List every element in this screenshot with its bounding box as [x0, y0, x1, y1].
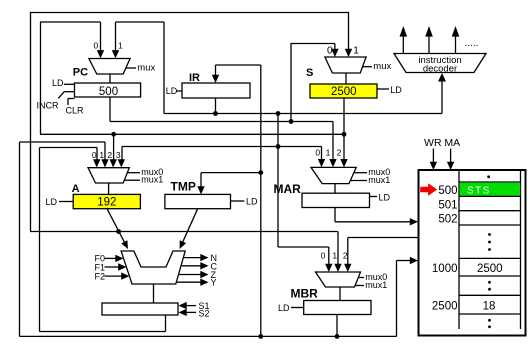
value memory 2500 = 18 [483, 300, 496, 312]
wire MAR-out to memory address port [335, 218, 418, 225]
label MBR mux input 0 [321, 251, 326, 261]
label MBR mux input 2 [343, 251, 348, 261]
wire shifter-out segment y=331 [40, 331, 166, 333]
svg-text:2: 2 [107, 150, 112, 160]
memory box [419, 170, 526, 336]
wire IR-out segment y=22 [116, 21, 165, 23]
label WR [424, 137, 442, 149]
label S mux input 0 [327, 46, 333, 57]
junction MBR-out at busB riser [258, 334, 263, 339]
svg-text:1: 1 [118, 40, 123, 50]
label INCR (PC) [37, 92, 75, 111]
value S 2500 [331, 86, 357, 98]
svg-text:18: 18 [483, 300, 496, 312]
memory ellipsis 2 [488, 281, 491, 291]
label memory address 1000 [432, 263, 458, 275]
wire MBR-out segment y=65 to IR [216, 64, 261, 66]
wire PC-out bus y=121 [110, 121, 333, 123]
value A 192 [97, 197, 116, 209]
wire A mux output stem [108, 183, 110, 194]
wire MBR-out riser busB x=261 [260, 65, 262, 336]
svg-text:.....: ..... [465, 38, 479, 49]
label mux (S) [362, 61, 391, 72]
svg-text:INCR: INCR [37, 101, 59, 111]
label CLR (PC) [66, 99, 85, 116]
register A name [72, 183, 80, 195]
svg-text:A: A [72, 183, 80, 195]
label PC mux input 1 [118, 40, 123, 50]
register PC name [73, 67, 88, 79]
value memory 1000 = 2500 [477, 263, 503, 275]
label memory address 501 [438, 199, 457, 211]
label N output [183, 253, 217, 263]
register IR box [182, 83, 250, 98]
wire ALU output stem [153, 284, 155, 303]
label decoder more-outputs dots [465, 38, 479, 49]
wire MBR-out drop into IR [212, 65, 219, 83]
label A mux input 0 [92, 150, 97, 160]
wire MAR mux output stem [334, 184, 336, 194]
wire IR-out riser to PC mux input 1 [163, 22, 165, 114]
svg-text:S2: S2 [199, 308, 210, 318]
label MAR mux input 1 [326, 147, 331, 157]
wire shifter-out riser x=39 [39, 148, 41, 332]
wire PC-out stem [109, 97, 111, 122]
label mux0 (MBR) [358, 272, 387, 282]
label LD (MAR) [370, 193, 391, 203]
register MBR name [291, 287, 319, 301]
wire IR-out segment y=247 [278, 246, 329, 248]
wire IR-out bus3 y=146 [122, 146, 322, 148]
wire S-out segment y=22 left [40, 21, 101, 23]
register TMP box [165, 194, 231, 208]
svg-text:0: 0 [94, 40, 99, 50]
svg-text:0: 0 [321, 251, 326, 261]
svg-text:2: 2 [343, 251, 348, 261]
shifter box [102, 303, 178, 315]
wire PC-out riser to S mux input 0 [290, 43, 292, 122]
label C output [181, 261, 218, 271]
label MAR mux input 0 [315, 147, 320, 157]
svg-text:2500: 2500 [432, 300, 458, 312]
wire A-out riser to S mux input 1 [345, 12, 352, 57]
svg-text:mux: mux [373, 61, 391, 72]
label MBR mux input 1 [332, 251, 337, 261]
ALU funnel [121, 251, 185, 284]
svg-text:LD: LD [246, 196, 258, 206]
svg-text:TMP: TMP [171, 180, 196, 194]
svg-text:1000: 1000 [432, 263, 458, 275]
wire TMP to ALU diagonal [180, 209, 198, 249]
junction MBR-out stem at bottom bus [335, 334, 340, 339]
memory cell row lines [459, 182, 521, 314]
svg-text:0: 0 [92, 150, 97, 160]
wire memory-read y=237 [348, 237, 418, 239]
mux PC (2-input) [89, 59, 130, 75]
register PC box [75, 83, 141, 97]
svg-text:1: 1 [99, 150, 104, 160]
svg-text:0: 0 [327, 46, 333, 57]
memory current-address red arrow [420, 183, 437, 196]
register S box [310, 84, 377, 98]
register A box [73, 194, 140, 208]
label LD (S) [377, 85, 402, 95]
wire A-out top segment y=12 [30, 12, 349, 14]
memory ellipsis 3 [488, 319, 491, 328]
label mux1 (A) [124, 175, 163, 185]
label Z output [179, 270, 217, 280]
svg-text:LD: LD [379, 193, 391, 203]
label mux0 (MAR) [354, 167, 391, 177]
junction IR-out at bus3 [276, 144, 281, 149]
mux A (4-input) [88, 168, 129, 183]
wire IR-out drop to MAR mux input 0 [318, 147, 325, 168]
svg-text:501: 501 [438, 199, 457, 211]
wire MBR-out riser to memory write port [396, 261, 398, 337]
wire IR-out stem [215, 98, 217, 114]
svg-text:IR: IR [189, 72, 200, 84]
svg-text:decoder: decoder [423, 64, 457, 75]
svg-text:2500: 2500 [477, 263, 503, 275]
svg-text:500: 500 [438, 185, 457, 197]
label PC mux input 0 [94, 40, 99, 50]
svg-text:1: 1 [332, 251, 337, 261]
wire IR-out drop to MBR mux input 0 [325, 247, 332, 272]
label memory address 500 [438, 185, 457, 197]
wire PC-out drop into S mux 0 [331, 44, 338, 58]
register S name [306, 67, 313, 79]
svg-text:MBR: MBR [291, 287, 319, 301]
svg-text:192: 192 [97, 197, 116, 209]
svg-text:S: S [306, 67, 313, 79]
svg-text:PC: PC [73, 67, 88, 79]
svg-text:LD: LD [46, 197, 58, 207]
decoder output arrow 1 [400, 26, 408, 53]
wire PC-out drop to MAR mux input 1 [329, 122, 336, 168]
junction S-out at A mux branch [111, 132, 116, 137]
wire MBR-out drop to A mux input 1 [101, 142, 108, 168]
label A mux input 1 [99, 150, 104, 160]
wire MBR-out segment to TMP [201, 172, 261, 174]
wire A-out left segment x=30 [30, 12, 32, 232]
wire IR-out bus y=113 [164, 113, 442, 115]
label F2 input [95, 271, 130, 281]
wire shifter-out stem [165, 315, 167, 332]
label LD (MBR) [278, 303, 304, 313]
wire A-out riser to MBR mux input 1 [334, 232, 341, 273]
instruction decoder [394, 54, 486, 75]
svg-text:mux1: mux1 [141, 175, 163, 185]
svg-text:0: 0 [315, 147, 320, 157]
label F1 input [95, 262, 127, 272]
value PC 500 [99, 86, 118, 98]
wire S-out riser from S register [340, 98, 347, 167]
label Y output [176, 278, 216, 288]
wire MBR-out left riser x=19 [19, 142, 21, 336]
decoder output arrow 3 [452, 26, 460, 53]
wire S mux output stem [345, 73, 347, 84]
label S1 input [179, 301, 210, 311]
label LD (IR) [166, 86, 182, 96]
register TMP name [171, 180, 196, 194]
mux MAR (3-input) [311, 167, 356, 183]
svg-text:WR: WR [424, 137, 442, 149]
wire MA into memory [447, 149, 454, 171]
memory top ellipsis [487, 175, 490, 178]
wire S-out bus y=134 [40, 133, 344, 135]
svg-text:MA: MA [444, 137, 460, 149]
mux S (2-input) [325, 57, 366, 73]
label mux (PC) [126, 62, 155, 73]
wire MBR-out into memory [397, 257, 419, 264]
memory cell column right edge [520, 170, 522, 329]
svg-text:LD: LD [390, 85, 402, 95]
wire S-out drop to A mux input 2 [110, 134, 117, 167]
label LD (A) [46, 197, 74, 207]
wire WR into memory [430, 149, 437, 171]
junction MBR-out at TMP branch [258, 170, 263, 175]
memory ellipsis 1 [488, 233, 491, 251]
svg-text:1: 1 [353, 46, 359, 57]
wire MBR mux output stem [339, 287, 341, 301]
svg-text:2: 2 [337, 147, 342, 157]
memory address column divider [458, 170, 460, 329]
label LD (TMP) [231, 196, 259, 206]
register MAR name [274, 182, 302, 196]
svg-text:CLR: CLR [66, 106, 85, 116]
svg-text:MAR: MAR [274, 182, 302, 196]
svg-text:STS: STS [467, 185, 491, 196]
wire MBR-out segment y=142 [20, 141, 106, 143]
register MBR box [304, 301, 371, 315]
mux MBR (3-input) [316, 272, 361, 287]
wire S-out drop to PC mux input 0 [97, 22, 104, 58]
wire shifter-out drop to A mux input 0 [93, 148, 100, 168]
wire MAR-out stem [334, 208, 336, 222]
wire IR-out riser x=278 [277, 114, 279, 248]
label memory address 2500 [432, 300, 458, 312]
svg-text:mux: mux [137, 62, 155, 73]
register MAR box [302, 193, 370, 207]
wire A-out bottom segment y=231 [30, 231, 338, 233]
label MA [444, 137, 460, 149]
decoder output arrow 2 [425, 26, 433, 53]
wire memory-read drop to MBR mux input 2 [344, 238, 351, 273]
wire MBR-out bottom bus y=336 [20, 335, 397, 337]
wire S-out riser x=40 [40, 22, 42, 134]
svg-text:LD: LD [278, 303, 290, 313]
label mux0 (A) [127, 167, 163, 177]
svg-text:1: 1 [326, 147, 331, 157]
wire IR-out riser to instruction decoder [438, 73, 446, 114]
wire MBR-out drop into TMP [197, 173, 204, 195]
memory cell 500 highlighted STS [460, 183, 520, 197]
svg-text:LD: LD [166, 86, 178, 96]
svg-text:2500: 2500 [331, 86, 357, 98]
label A mux input 3 [116, 150, 121, 160]
register IR name [189, 72, 200, 84]
label mux1 (MBR) [355, 280, 387, 290]
label F0 input [95, 253, 124, 263]
wire PC-out segment y=43 [291, 43, 335, 45]
junction S-out at bus1 [342, 132, 347, 137]
junction PC-out at S riser [289, 119, 294, 124]
label MAR mux input 2 [337, 147, 342, 157]
wire A to ALU diagonal [107, 209, 128, 249]
wire IR-out drop into PC mux 1 [112, 22, 119, 58]
wire shifter-out segment y=147 [40, 147, 98, 149]
svg-text:3: 3 [116, 150, 121, 160]
svg-text:mux1: mux1 [365, 280, 387, 290]
label mux1 (MAR) [350, 175, 390, 185]
svg-text:Y: Y [211, 278, 217, 288]
svg-text:F2: F2 [95, 271, 106, 281]
label memory address 502 [438, 214, 457, 226]
label A mux input 2 [107, 150, 112, 160]
wire MBR-out stem [336, 315, 338, 337]
label S2 input [179, 308, 210, 318]
svg-text:500: 500 [99, 86, 118, 98]
wire PC mux output stem [109, 74, 111, 83]
wire IR-out drop to A mux input 3 [118, 147, 125, 168]
svg-text:502: 502 [438, 214, 457, 226]
junction A-out / A-to-ALU diagonal [116, 229, 121, 234]
junction IR-out stem [213, 111, 218, 116]
svg-text:mux1: mux1 [368, 175, 390, 185]
label S mux input 1 [353, 46, 359, 57]
label LD (PC) [52, 78, 75, 88]
junction IR-out at x=278 [276, 111, 281, 116]
svg-text:LD: LD [52, 78, 64, 88]
